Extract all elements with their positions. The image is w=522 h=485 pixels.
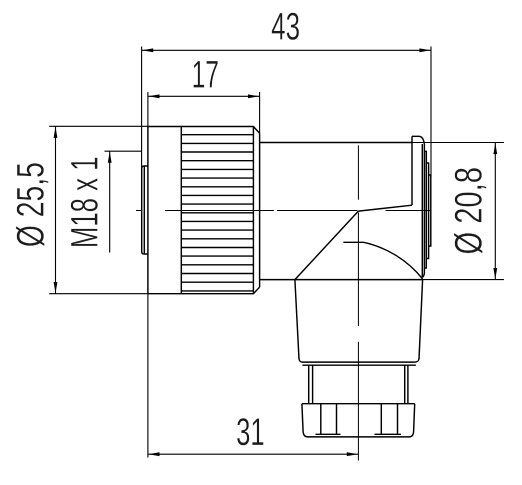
gland neck line left inner	[312, 365, 314, 404]
cable nut inner bottom line	[316, 433, 402, 435]
gland neck line left outer	[308, 365, 310, 404]
body back edge	[411, 136, 413, 205]
dimension dia 25,5	[10, 126, 58, 293]
svg-text:Ø 20,8: Ø 20,8	[448, 167, 491, 254]
gasket ring	[142, 166, 148, 254]
body top edge	[260, 142, 412, 144]
svg-text:43: 43	[271, 6, 300, 49]
rim knurl divider	[180, 127, 182, 294]
cable nut facet line 1	[320, 404, 322, 435]
knurl groove end line	[252, 127, 254, 294]
knurl right edge	[259, 133, 261, 287]
extension line 43 left	[141, 47, 143, 169]
extension line 17 right	[259, 92, 261, 133]
body bottom shoulder	[260, 279, 423, 281]
cap shell line 2	[423, 144, 425, 278]
knurl grooves	[181, 135, 253, 291]
dimension dia 20,8	[448, 143, 498, 280]
svg-text:17: 17	[192, 54, 219, 97]
extension line dia 20,8 top	[412, 142, 504, 144]
elbow back slope	[359, 205, 412, 211]
extension line 43 right	[430, 47, 432, 178]
cap top and shoulder	[412, 136, 424, 143]
elbow diagonal	[295, 211, 359, 280]
cap shell line 1	[421, 144, 423, 277]
bell right edge	[419, 280, 423, 359]
cable nut facet line 2	[336, 404, 338, 435]
cable nut facet line 3	[380, 404, 382, 435]
extension line dia 25,5 bottom	[49, 293, 148, 295]
cable nut facet line 4	[397, 404, 399, 435]
gland neck line right inner	[404, 365, 406, 404]
centerline vertical	[357, 145, 359, 460]
thread callout M18 x 1	[64, 151, 142, 252]
dimension 43	[142, 6, 431, 53]
elbow inner fillet	[343, 242, 422, 279]
knurl top edge with chamfer	[148, 127, 260, 134]
gland neck line right outer	[407, 365, 409, 404]
extension line front face (17 top / 31 bottom)	[147, 92, 149, 458]
svg-text:Ø 25,5: Ø 25,5	[10, 162, 53, 247]
extension line dia 25,5 top	[49, 125, 148, 127]
bell bottom edge	[299, 359, 419, 363]
cap shell line 3	[425, 151, 427, 268]
bell left edge	[295, 280, 299, 359]
extension line dia 20,8 bottom	[423, 279, 504, 281]
cable nut outline	[302, 404, 415, 437]
cap shell line 5	[429, 175, 431, 246]
dimension 31	[148, 411, 359, 456]
svg-text:31: 31	[236, 411, 265, 454]
knurl bottom edge with chamfer	[148, 287, 260, 294]
dimension 17	[148, 54, 260, 99]
svg-text:M18 x 1: M18 x 1	[64, 156, 107, 248]
bell lip	[302, 364, 416, 366]
cap shell line 4	[427, 163, 429, 259]
centerline horizontal	[136, 210, 431, 212]
coupling nut front face	[147, 127, 149, 294]
